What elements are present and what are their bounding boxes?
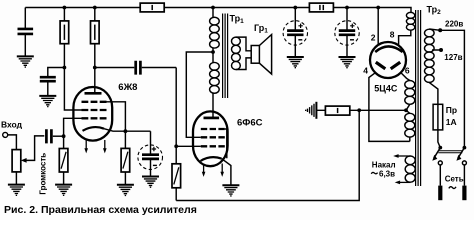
label: ~ mains [449, 187, 456, 189]
wire: screen grid riser [64, 68, 81, 111]
ground: below pot [8, 185, 25, 196]
wire: U1 suppressor to cathode [107, 102, 126, 131]
ground: below screen bypass cap [39, 96, 56, 107]
svg-text:Сеть: Сеть [445, 175, 464, 184]
node: Tr1 primary tap [211, 50, 215, 54]
node: anode node junction [93, 66, 97, 70]
tube U1 cathode [83, 127, 105, 131]
speaker Gr1 [251, 35, 271, 75]
svg-text:8: 8 [390, 30, 395, 40]
tube U2 grid rows [201, 129, 225, 146]
wire: pin 2 lead to rail [377, 8, 379, 46]
transformer Tr2 heater winding 6.3V [405, 156, 415, 182]
terminal: input socket [3, 132, 8, 137]
node: Tr1 rail junction [211, 6, 215, 10]
capacitor C4 filter electrolytic 1 [283, 8, 307, 58]
tube U1 6Ж8 bulb [73, 87, 112, 141]
switch: mains double pole left [432, 146, 442, 186]
wire: heater winding top lead with arrow [393, 154, 410, 158]
node: screen node junction [63, 66, 67, 70]
wire: U2 suppressor internal link [225, 129, 227, 158]
ground: below C4 [287, 57, 304, 68]
svg-text:220в: 220в [445, 20, 463, 29]
capacitor: screen bypass cap [40, 68, 65, 96]
switch: mains double pole right [456, 146, 466, 186]
wire: screen tap to U2 [186, 52, 213, 137]
node: HV center tap [404, 108, 408, 112]
node: C5 rail junction [345, 6, 349, 10]
fuse Пр 1А [433, 104, 443, 147]
node: C4 rail junction [293, 6, 297, 10]
ground: below R3 [55, 185, 72, 196]
resistor R5 grid resistor U2 (0.125W) [172, 146, 181, 200]
node: grid node of U1 [62, 134, 66, 138]
svg-text:127в: 127в [444, 53, 462, 62]
resistor R3 grid leak (0.125W) [59, 136, 68, 184]
tube U1 anode plate and lead [85, 68, 102, 94]
wire: pin 6 lead to HV winding top [401, 73, 410, 81]
terminal: mains plug prong left [438, 186, 442, 201]
svg-text:6Ф6С: 6Ф6С [237, 117, 263, 128]
wire: bias bus [176, 110, 359, 200]
resistor R8 bias resistor (1W) [316, 106, 359, 115]
wire: U2 grid riser [175, 68, 177, 147]
svg-text:Рис. 2. Правильная схема усил: Рис. 2. Правильная схема усилителя [4, 204, 197, 216]
tube U3 anode plates [376, 62, 400, 69]
ground: below C3 [142, 177, 159, 188]
tube U1 grid rows [82, 102, 107, 119]
ground: below C5 [339, 57, 356, 68]
wire: U2 cathode to ground [222, 159, 231, 186]
transformer Tr2 primary winding [425, 29, 442, 104]
transformer Tr1 primary upper [210, 8, 220, 63]
svg-text:Пр: Пр [446, 105, 457, 115]
wire: U1 cathode lead [104, 129, 151, 132]
tube U3 5Ц4С envelope [370, 42, 406, 78]
node: rail to U3 junction [376, 6, 380, 10]
label: ~6,3в [371, 169, 395, 178]
resistor R6 filter resistor on rail (1W) [140, 3, 164, 12]
svg-text:4: 4 [363, 66, 368, 76]
terminal: mains plug prong right [462, 186, 466, 201]
node: R1 top rail junction [63, 6, 67, 10]
terminal: 220V tap [438, 28, 442, 32]
ground: chassis sideways [306, 102, 317, 119]
transformer Tr2 rectifier filament winding [406, 12, 414, 30]
svg-text:6: 6 [405, 66, 410, 76]
svg-text:Накал: Накал [372, 161, 396, 170]
capacitor C2 interstage coupling [95, 61, 176, 75]
transformer Tr2 HV winding lower [405, 113, 415, 141]
transformer Tr1 secondary [232, 37, 252, 69]
switch: mechanical link [438, 151, 462, 153]
node: U2 grid node [174, 144, 178, 148]
svg-text:1А: 1А [446, 117, 457, 127]
transformer Tr1 core [223, 14, 228, 99]
transformer Tr2 core [416, 10, 421, 186]
wire: pin 8 lead to 5V winding [399, 30, 411, 45]
tube U2 anode plate [204, 117, 220, 120]
tube U2 6Ф6С bulb [193, 111, 228, 166]
svg-text:Вход: Вход [1, 119, 23, 129]
node: cathode junction [124, 129, 128, 133]
ground: U2 cathode [222, 185, 239, 196]
wire: grid node to U2 grid [176, 145, 201, 147]
resistor R2 anode load resistor (1W) [91, 8, 100, 68]
node: bias junction [357, 108, 361, 112]
wire: 220V to switch right pole [440, 30, 464, 147]
wire: +B top rail [25, 8, 411, 13]
tube U2 heater arrows [202, 164, 206, 177]
tube U3 filament [375, 46, 402, 52]
tube U2 cathode [201, 157, 222, 161]
wire: grid riser U1 [64, 118, 82, 136]
wire: pot wiper arrow [21, 136, 45, 163]
resistor R7 filter resistor on rail (2W) [309, 3, 333, 12]
wire: pin 4 lead to HV winding bottom [369, 73, 410, 142]
svg-text:Громкость: Громкость [39, 153, 48, 195]
terminal: 127V tap [439, 48, 443, 52]
svg-text:6Ж8: 6Ж8 [118, 82, 137, 93]
capacitor: decoupling cap top-left [18, 8, 34, 57]
svg-text:2: 2 [371, 33, 376, 43]
transformer Tr2 HV winding upper [405, 81, 415, 114]
svg-text:6,3в: 6,3в [379, 169, 395, 178]
node: R2 top rail junction [93, 6, 97, 10]
resistor R4 cathode bias (0.125W) [121, 131, 130, 185]
transformer Tr1 primary lower [210, 62, 220, 117]
potentiometer: volume control [12, 150, 21, 185]
resistor R1 screen dropping resistor (1W) [60, 8, 69, 68]
ground: below R4 [117, 185, 134, 196]
wire: heater winding bottom lead with arrow [395, 181, 411, 185]
capacitor C1 input coupling [46, 129, 63, 143]
ground: below top-left cap [17, 56, 34, 67]
tube U1 heater arrows [84, 140, 88, 153]
wire: center tap to bias resistor [359, 109, 406, 111]
capacitor C5 filter electrolytic 2 [335, 8, 359, 58]
capacitor C3 cathode bypass electrolytic [138, 131, 163, 176]
svg-text:5Ц4С: 5Ц4С [374, 83, 398, 93]
wire: input to volume pot [8, 135, 17, 150]
